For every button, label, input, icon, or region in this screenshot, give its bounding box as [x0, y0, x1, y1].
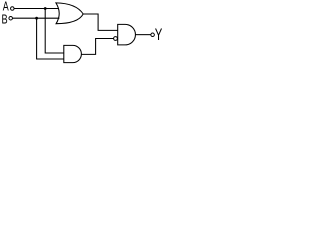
- AND gate U2: [64, 45, 82, 62]
- wire AND output to NAND bubble input: [81, 39, 113, 55]
- svg-text:Y: Y: [155, 26, 163, 45]
- svg-text:A: A: [3, 0, 9, 14]
- wire B to OR bottom input: [13, 17, 60, 19]
- svg-text:B: B: [2, 13, 8, 27]
- inverter bubble on NAND bottom input: [114, 37, 118, 41]
- node dot on wire A: [44, 7, 47, 10]
- wire from node B down to AND gate bottom input: [37, 18, 64, 59]
- wire from node A down to AND gate top input: [45, 9, 64, 54]
- wire NAND output to terminal Y: [135, 34, 150, 36]
- node dot on wire B: [35, 17, 38, 20]
- wire A to OR top input: [14, 8, 59, 10]
- terminal Y: [151, 33, 155, 37]
- OR gate U1: [56, 3, 83, 24]
- terminal B: [9, 16, 13, 20]
- NAND gate U3 body: [118, 24, 136, 45]
- wire OR output to NAND top input: [83, 14, 118, 30]
- terminal A: [11, 7, 15, 11]
